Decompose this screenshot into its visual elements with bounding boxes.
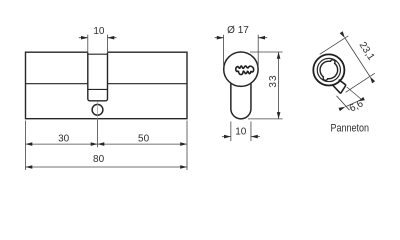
arrows 10 bottom (224, 135, 258, 139)
svg-text:6,6: 6,6 (348, 98, 366, 114)
plug profile with bumps (320, 60, 338, 81)
keyhole (236, 66, 254, 75)
dim line 10 top (79, 37, 117, 39)
ext lines 33 (248, 52, 283, 119)
dim line 50 (98, 143, 188, 145)
dim line 6,6 (345, 101, 358, 107)
arrows Ø17 (217, 36, 265, 40)
svg-text:Ø 17: Ø 17 (227, 25, 249, 36)
ext line from cam tip (346, 73, 375, 92)
dimension lines: side view (26, 35, 188, 170)
dim line 30 (26, 143, 98, 145)
svg-text:30: 30 (58, 133, 70, 144)
svg-text:10: 10 (235, 127, 247, 138)
arrow 6,6 lower-left (339, 107, 346, 111)
cam lug (333, 80, 346, 94)
dimension 23.1 (320, 36, 375, 93)
cam slot top edge (88, 53, 108, 55)
extension lines 30/50/80 (26, 120, 188, 171)
cam slot (88, 53, 108, 101)
front profile lower part (231, 83, 251, 119)
fixing screw hole (92, 104, 103, 115)
svg-text:23,1: 23,1 (357, 40, 377, 63)
dim line 10 bottom (222, 136, 260, 138)
cylinder body side view (26, 52, 188, 119)
arrow 6,6 upper-right (358, 97, 365, 101)
dim line 80 (26, 166, 188, 168)
cam edge in slot (88, 88, 108, 90)
arrows 10 top (outside, pointing inward) (81, 36, 114, 40)
svg-text:33: 33 (268, 74, 279, 87)
ext line from ring top (320, 36, 349, 55)
arrow 23.1 lower (370, 77, 375, 84)
body mid line (26, 83, 188, 85)
dim line 33 (278, 52, 280, 119)
ring outer circle (313, 54, 344, 85)
svg-text:50: 50 (138, 133, 150, 144)
dim line Ø17 (215, 37, 268, 39)
ext line cam upper side (347, 87, 361, 99)
arrows 30 (26, 142, 98, 146)
ext lines Ø17 (224, 35, 259, 66)
svg-text:10: 10 (93, 26, 105, 37)
arrows 80 (26, 165, 188, 169)
front face circle (224, 52, 258, 86)
arrows 33 (inside) (277, 52, 281, 119)
dimension 6,6 (337, 87, 362, 110)
dim line 23.1 (345, 38, 370, 77)
panneton detail (313, 54, 345, 93)
extension lines for 10 (top) (88, 35, 108, 52)
dimensions front view (215, 35, 283, 141)
svg-text:80: 80 (93, 154, 105, 165)
svg-text:Panneton: Panneton (331, 123, 370, 135)
arrow 23.1 upper (340, 31, 345, 38)
ext line cam lower side (337, 96, 350, 110)
faint center line through screw hole (97, 102, 99, 120)
arrows 50 (98, 142, 188, 146)
ext lines 10 bottom (231, 122, 251, 142)
ring inner circle (317, 58, 340, 81)
front view (224, 52, 258, 119)
